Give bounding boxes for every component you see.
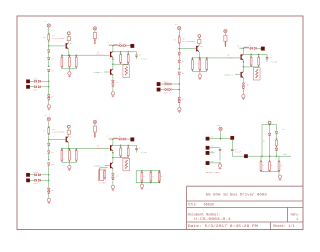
svg-text:TITLE:: TITLE: <box>188 203 197 207</box>
resistor R1b collector load <box>67 37 70 41</box>
wire top rail left leg <box>261 125 263 157</box>
wire Q33 base stub <box>105 165 110 167</box>
wire D2a to D2b <box>178 56 180 60</box>
termination resistor R5d <box>278 156 280 162</box>
driver block channel 1 (top-left) <box>26 21 147 110</box>
supply stub circle 1 <box>67 32 70 35</box>
wire bottom rail to ground 1 <box>68 69 70 72</box>
wire R1a to node base <box>48 41 50 46</box>
wire diodes to output pad 1 <box>127 45 131 47</box>
wire diodes to ground 2 <box>242 90 244 95</box>
diode D3b <box>47 151 50 153</box>
wire Q13 base stub <box>105 71 110 73</box>
svg-text:2N3904-1: 2N3904-1 <box>94 164 104 167</box>
wire Q23 emitter to diodes <box>242 78 244 83</box>
array resistor Ra2 <box>150 170 151 171</box>
junction rail R2n3 <box>206 57 207 58</box>
svg-text:R: R <box>68 154 69 156</box>
junction rail R3n2 <box>69 148 70 149</box>
wire diodes to output pad 2 <box>257 47 261 49</box>
capacitor C2a <box>266 55 268 58</box>
emitter rail 3 <box>62 148 110 150</box>
svg-text:1: 1 <box>296 217 298 221</box>
svg-text:2N3904-1: 2N3904-1 <box>94 71 104 74</box>
ground symbol termination <box>278 175 281 178</box>
termination top rail <box>262 124 277 126</box>
wire node down <box>48 139 50 143</box>
wire C4b to output pad <box>231 151 233 156</box>
wire rail to R1n1 <box>61 55 63 57</box>
connector pad IN2B <box>157 88 160 91</box>
wire D2c to input node <box>178 75 180 90</box>
diode D3j <box>112 174 115 176</box>
svg-text:Sheet: 1/1: Sheet: 1/1 <box>273 224 295 228</box>
wire Q11 emitter down <box>68 49 70 55</box>
svg-text:R: R <box>68 60 69 62</box>
output inductor L1 (L-US_L0603) <box>109 45 113 47</box>
resistor R2d <box>250 55 252 58</box>
wire VCC to R1a <box>48 28 50 35</box>
capacitor C3a <box>136 145 138 148</box>
resistor R2n2 <box>199 60 201 69</box>
output pad OUT2 <box>261 47 264 50</box>
wire zener down <box>269 136 271 156</box>
junction rail R2n2 <box>199 57 200 58</box>
wire diodes to ground 1 <box>112 87 114 92</box>
wire top rail mid leg <box>269 125 271 133</box>
supply symbol P2 (VCC crossed circle) <box>178 27 181 30</box>
output diode D3o2 <box>124 138 126 140</box>
ground symbol network 2 <box>198 74 201 77</box>
output inductor L2 (L-US_L0603) <box>239 47 243 49</box>
output diode D3o1 <box>120 138 122 140</box>
pull-up resistor R1c box <box>93 33 96 39</box>
diode D1h <box>35 86 37 88</box>
svg-text:0603X: 0603X <box>204 203 215 207</box>
wire supply to R1c <box>94 30 96 32</box>
wire diodes to node B2 <box>172 89 179 91</box>
wire Q13 emitter to diodes <box>112 75 114 80</box>
junction input node A2 <box>179 83 180 84</box>
svg-text:2N3904: 2N3904 <box>226 56 234 59</box>
wire bottom rail to ground 2 <box>199 72 201 75</box>
wire rail to R3n2 <box>68 149 70 151</box>
svg-text:VCC: VCC <box>211 137 214 139</box>
svg-text:D?: D? <box>119 136 121 138</box>
ground symbol left chain 3 <box>47 198 50 201</box>
supply stub circle 3 <box>67 125 70 128</box>
wire D1a to D1b <box>48 53 50 57</box>
connector pad J4-3 <box>206 151 209 154</box>
emitter rail 1 <box>62 54 110 56</box>
diode D3k <box>112 177 115 179</box>
diode D2a <box>178 53 181 55</box>
diode D1b <box>47 57 50 59</box>
output inductor L3 (L-US_L0603) <box>109 138 113 140</box>
resistor R1n1 <box>61 57 63 66</box>
junction rail-emitter 3 <box>68 148 69 149</box>
connector pad IN2A <box>157 82 160 85</box>
wire L1 to D1o1 <box>118 45 119 47</box>
wire node down <box>48 46 50 50</box>
svg-text:Date: 5/3/2017 8:45:28 PM: Date: 5/3/2017 8:45:28 PM <box>188 224 258 228</box>
junction rail R1n2 <box>69 55 70 56</box>
supply symbol above R3c <box>93 120 96 123</box>
junction node base1 <box>48 45 49 46</box>
svg-text:50 Ohm 1G Bus Driver 0603: 50 Ohm 1G Bus Driver 0603 <box>206 192 268 197</box>
connector pad IN3A <box>26 173 29 176</box>
wire R1b to supply stub <box>68 35 70 37</box>
termination resistor R5b <box>260 156 262 162</box>
resistor R2b collector load <box>198 39 201 43</box>
junction mid2 <box>179 68 180 69</box>
svg-text:D?D?: D?D? <box>34 90 38 92</box>
wire R2n1 to bottom rail <box>191 70 193 72</box>
termination resistor R5c <box>269 156 271 162</box>
resistor R5a <box>276 135 278 140</box>
junction collector node 3 <box>112 138 113 139</box>
junction C4a ground stem <box>219 162 220 163</box>
resistor R1n3 <box>75 57 77 66</box>
supply symbol P3 (VCC crossed circle) <box>47 117 50 120</box>
junction input node B2 <box>179 89 180 90</box>
ground symbol stage2 1 <box>111 92 114 95</box>
wire input node down <box>48 87 50 95</box>
connector pad J4-out <box>244 155 247 158</box>
wire J4-4 to ground stem <box>209 162 220 164</box>
transistor Q12 upper <box>110 52 111 58</box>
diode D5b <box>275 132 278 134</box>
ground symbol network 3 <box>68 165 71 168</box>
diode D3g <box>38 174 40 176</box>
transistor Q23 lower <box>241 72 242 78</box>
wire input node down <box>48 180 50 188</box>
svg-text:0,1uF: 0,1uF <box>141 58 148 61</box>
svg-text:2N3904-1: 2N3904-1 <box>224 74 234 77</box>
wire D3b to junction <box>48 154 50 160</box>
diode D1d <box>47 95 50 97</box>
diode D2j <box>242 83 245 85</box>
ground symbol connector block <box>218 164 221 167</box>
wire diodes to node B3 <box>41 179 48 181</box>
transistor Q33 lower <box>110 163 111 169</box>
transistor Q32 upper <box>110 145 111 151</box>
diode D1j <box>112 80 115 82</box>
junction rail-emitter 1 <box>68 55 69 56</box>
diode D3d <box>47 188 50 190</box>
svg-text:D?D?: D?D? <box>164 92 168 94</box>
junction collector node 1 <box>112 45 113 46</box>
diode D1g <box>38 80 40 82</box>
svg-text:R: R <box>61 154 62 156</box>
diode D2h <box>165 88 167 90</box>
svg-text:R-US_R0603: R-US_R0603 <box>52 37 65 40</box>
connector pad J4-2 <box>206 146 209 149</box>
wire Q32 collector up <box>112 139 114 145</box>
svg-text:D?D?: D?D? <box>34 183 38 185</box>
wire rail to R1n2 <box>68 55 70 57</box>
wire R2c down to chain <box>224 41 226 47</box>
junction bus terminations <box>261 156 262 157</box>
junction mid1 <box>48 66 49 67</box>
wire to ground 3 <box>48 194 50 198</box>
diode D2g <box>169 83 171 85</box>
svg-text:D?D?: D?D? <box>164 81 168 83</box>
wire to ground 2 <box>178 103 180 107</box>
junction input node A1 <box>48 81 49 82</box>
wire VCC to R2a <box>178 30 180 37</box>
wire bottom rail to ground 3 <box>68 162 70 165</box>
output diode D2o1 <box>250 47 252 49</box>
wire Q21 collector to R box <box>198 44 200 46</box>
diode D3e <box>47 191 50 193</box>
wire R1n2 to bottom rail <box>68 67 70 69</box>
diode D1i <box>38 86 40 88</box>
driver block channel 3 (bottom-left) <box>26 114 147 203</box>
wire R3n2 to bottom rail <box>68 161 70 163</box>
svg-text:D?D?: D?D? <box>34 172 38 174</box>
trimmer box R2f <box>253 68 260 81</box>
wire D3a to D3b <box>48 146 50 150</box>
wire R2n3 to bottom rail <box>206 70 208 72</box>
wire input node down <box>178 90 180 98</box>
junction input node B3 <box>48 180 49 181</box>
svg-text:Document Number:: Document Number: <box>188 212 221 216</box>
capacitor C4b <box>231 150 233 151</box>
wire base node to Q31 <box>49 138 66 140</box>
wire R3a to node base <box>48 134 50 139</box>
wire pad A to diodes <box>30 80 35 82</box>
connector pad IN1A <box>26 80 29 83</box>
title block outline <box>187 186 304 229</box>
svg-text:D?D?: D?D? <box>34 79 38 81</box>
emitter rail 2 <box>192 57 240 59</box>
svg-text:2N3904: 2N3904 <box>96 147 104 150</box>
resistor R2e <box>258 55 260 58</box>
diode D3i <box>38 179 40 181</box>
svg-text:R: R <box>281 165 282 167</box>
junction collector node 2 <box>243 48 244 49</box>
supply stub circle 2 <box>198 35 201 38</box>
wire diodes to node B1 <box>41 86 48 88</box>
wire pad A to diodes <box>30 174 35 176</box>
wire L3 to D3o1 <box>118 138 119 140</box>
diode D2c <box>178 72 181 74</box>
pull-up resistor R3c box <box>93 126 96 132</box>
network top rail 3 <box>113 144 137 146</box>
diode D2f <box>165 83 167 85</box>
svg-text:IN: IN <box>211 146 213 148</box>
wire Q21 emitter down <box>198 52 200 58</box>
ground symbol resistor array <box>141 183 143 184</box>
wire R2b to supply stub <box>198 37 200 39</box>
svg-text:R: R <box>153 176 154 178</box>
svg-text:D?: D? <box>250 45 252 47</box>
junction VCC node <box>220 138 221 139</box>
wire Q31 collector to R box <box>68 134 70 136</box>
wire diodes to node A3 <box>41 174 48 176</box>
trim network channel 3 bracket <box>100 168 108 180</box>
wire pad A to diodes <box>160 83 165 85</box>
transistor Q21 (2N3904) <box>196 46 197 52</box>
supply symbol P4 (VCC) <box>219 127 222 130</box>
diode D3f <box>35 174 37 176</box>
svg-text:R: R <box>191 63 192 65</box>
supply symbol above R2c <box>224 29 227 32</box>
svg-text:L-US_L0603: L-US_L0603 <box>108 44 119 46</box>
wire Q31 emitter down <box>68 143 70 149</box>
junction Q32 emitter <box>112 151 114 163</box>
resistor R3n2 <box>69 151 71 160</box>
wire R2a to node base <box>178 43 180 48</box>
wire top rail right leg <box>276 125 278 132</box>
wire pad B to diodes <box>160 89 165 91</box>
diode D3h <box>35 179 37 181</box>
resistor R1d <box>120 52 122 55</box>
resistor R2n3 <box>206 60 208 69</box>
drawing frame border <box>17 16 303 230</box>
array resistor Ra1 <box>141 170 142 171</box>
wire D1c to input node <box>48 72 50 87</box>
resistor R3n3 <box>75 151 77 160</box>
diode D2e <box>178 100 181 102</box>
svg-text:R: R <box>271 165 272 167</box>
svg-text:R-US_R0603: R-US_R0603 <box>52 131 65 134</box>
wire R1n3 to bottom rail <box>75 67 77 69</box>
bottom rail network 3 <box>62 161 76 163</box>
driver block channel 2 (top-right) <box>157 23 278 112</box>
wire Q12 collector up <box>112 46 114 52</box>
wire D1b to junction <box>48 60 50 66</box>
wire Q22 collector up <box>242 48 244 54</box>
resistor R1e <box>127 52 129 55</box>
junction mid3 <box>48 159 49 160</box>
connector pad IN3B <box>26 179 29 182</box>
junction input node B1 <box>48 86 49 87</box>
svg-text:2N3904: 2N3904 <box>96 54 104 57</box>
svg-text:R-TRIM: R-TRIM <box>100 181 108 184</box>
diode D2k <box>242 87 245 89</box>
wire diodes to node A1 <box>41 80 48 82</box>
termination bottom rail <box>261 171 279 173</box>
wire D2b to junction <box>178 63 180 69</box>
transistor Q22 upper <box>241 54 242 60</box>
output pad OUT1 <box>131 44 134 47</box>
wire bottom rail to ground <box>278 172 280 175</box>
diode D5c <box>276 147 278 149</box>
wire supply to R2c <box>224 33 226 35</box>
svg-text:D?: D? <box>119 42 121 44</box>
transistor Q13 lower <box>110 69 111 75</box>
bottom rail network 2 <box>192 71 206 73</box>
diode D1e <box>47 98 50 100</box>
output pad OUT3 <box>131 138 134 141</box>
wire Q11 collector to R box <box>68 41 70 43</box>
svg-text:L-US_L0603: L-US_L0603 <box>108 137 119 139</box>
svg-text:L-US_L0603: L-US_L0603 <box>238 47 249 49</box>
wire D3c to input node <box>48 166 50 181</box>
junction top rail 1 3 <box>120 145 121 146</box>
svg-text:ADJUST TRIM: ADJUST TRIM <box>206 171 220 174</box>
wire pad B to diodes <box>30 179 35 181</box>
wire to ground 1 <box>48 101 50 105</box>
wire pad B to diodes <box>30 86 35 88</box>
capacitor C1a <box>136 52 138 55</box>
wire J4-2 to cap C4a <box>209 147 220 149</box>
connector pad IN1B <box>26 85 29 88</box>
wire D5c to bus <box>276 151 278 156</box>
network top rail 1 <box>113 51 137 53</box>
ground symbol stage2 2 <box>242 94 245 97</box>
diode D3c <box>47 163 50 165</box>
wire rail to R2n3 <box>206 58 208 60</box>
diode D1k <box>112 84 115 86</box>
supply symbol P1 (VCC crossed circle) <box>47 24 50 27</box>
svg-text:R: R <box>205 63 206 65</box>
connector pad J4-1 <box>206 137 209 140</box>
wire R3n3 to bottom rail <box>75 161 77 163</box>
ground symbol stage2 3 <box>111 185 114 188</box>
wire L2 to D2o1 <box>249 47 250 49</box>
junction rail R3n1 <box>61 148 62 149</box>
wire rail to R3n3 <box>75 149 77 151</box>
svg-text:GND: GND <box>211 161 214 163</box>
array resistor Ra3 <box>159 170 160 171</box>
wire VCC to R3a <box>48 121 50 128</box>
wire rail to R1n3 <box>75 55 77 57</box>
svg-text:U-CS-0603-0-1: U-CS-0603-0-1 <box>194 218 231 222</box>
junction top rail 2 3 <box>128 145 129 146</box>
wire R3n1 to bottom rail <box>61 161 63 163</box>
wire supply to R3c <box>94 124 96 126</box>
transistor Q11 (2N3904) <box>66 43 67 49</box>
diode D2b <box>178 60 181 62</box>
supply stub termination <box>268 121 271 124</box>
resistor R3e <box>127 145 129 148</box>
junction rail R1n3 <box>76 55 77 56</box>
wire J4-top down to C4b <box>231 140 233 149</box>
junction rail R1n1 <box>61 55 62 56</box>
svg-text:R: R <box>199 63 200 65</box>
wire base node to Q21 <box>179 48 196 50</box>
wire output to termination net <box>248 155 291 157</box>
diode D1c <box>47 69 50 71</box>
diode D1a <box>47 50 50 52</box>
junction node base3 <box>48 139 49 140</box>
ground symbol left chain 2 <box>178 107 181 110</box>
diode D3a <box>47 143 50 145</box>
svg-text:R: R <box>144 176 145 178</box>
network bottom rail 3 <box>113 157 128 159</box>
resistor R3a (R-US_R0603) <box>48 128 50 134</box>
network bottom rail 1 <box>113 63 128 65</box>
wire rail to R2n1 <box>191 58 193 60</box>
wire diodes to ground 3 <box>112 180 114 185</box>
resistor R2n1 <box>192 60 194 69</box>
resistor R3b collector load <box>67 130 70 134</box>
junction top rail 2 1 <box>128 51 129 52</box>
diode D2d <box>178 97 181 99</box>
svg-text:IO: IO <box>211 151 213 153</box>
wire R1c down to chain <box>94 39 96 45</box>
junction Q12 emitter <box>112 57 114 69</box>
zener diode D5a <box>268 133 271 135</box>
resistor R3n1 <box>61 151 63 160</box>
junction rail R3n3 <box>76 148 77 149</box>
wire rail to R3n1 <box>61 149 63 151</box>
trimmer box R1f <box>123 65 130 78</box>
junction top rail <box>269 124 270 125</box>
